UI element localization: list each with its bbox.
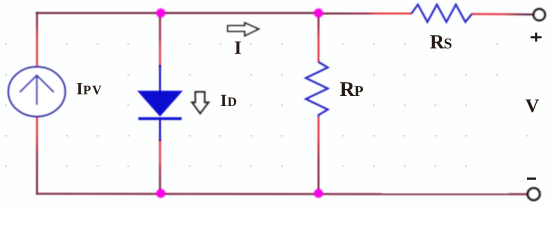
label minus sign	[527, 178, 536, 180]
wire Rp branch upper	[318, 13, 320, 63]
resistor RS	[412, 5, 472, 23]
label I	[235, 41, 241, 53]
label ID	[221, 95, 236, 106]
label RP	[340, 82, 363, 96]
wire top bus middle segment	[160, 12, 319, 14]
diode D	[138, 65, 181, 141]
label V	[526, 100, 539, 113]
arrow I (hollow right arrow on top bus)	[228, 23, 259, 36]
resistor RP	[306, 62, 328, 117]
label plus sign	[531, 33, 542, 42]
wire top bus left segment	[36, 12, 161, 14]
label RS	[430, 35, 451, 48]
terminal positive output	[534, 9, 545, 20]
label IPV	[77, 83, 102, 94]
node junction top-left (diode branch)	[156, 8, 165, 17]
node junction top-right (Rp branch)	[314, 8, 323, 17]
terminal negative output	[528, 188, 540, 200]
wire bottom bus	[36, 193, 528, 195]
node junction bottom-right (Rp branch)	[314, 189, 323, 198]
wire diode branch upper	[159, 13, 161, 67]
arrow ID (hollow down arrow)	[192, 92, 208, 113]
wire left branch upper (bus to current source)	[36, 12, 38, 68]
current source IPV	[8, 67, 65, 117]
wire left branch lower (current source to bottom bus)	[36, 116, 38, 194]
wire top bus right segment to Rs	[318, 13, 412, 15]
wire from Rs to positive terminal	[472, 13, 535, 16]
wire diode branch lower	[159, 139, 161, 194]
wire Rp branch lower	[318, 117, 320, 194]
node junction bottom-left (diode branch)	[156, 189, 165, 198]
